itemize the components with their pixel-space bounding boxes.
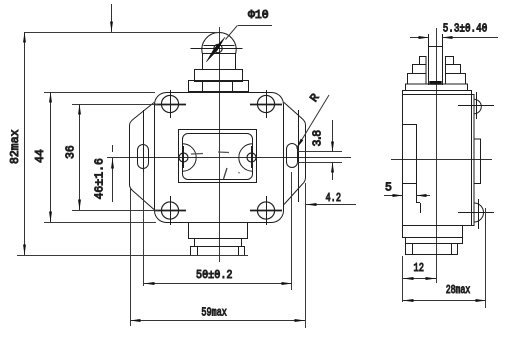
leader R [297,95,330,149]
window inner rect [183,134,253,180]
center line horizontal (front view) [107,157,351,159]
right ear inner line [298,110,300,202]
svg-text:44: 44 [34,149,47,163]
side collar B [403,91,472,95]
left ear wing [130,103,155,210]
dimension 46±1.6 top arrow [111,4,113,32]
dimension 3.8 [297,151,342,153]
dimension 28max [485,208,487,308]
plunger dome (front view) [202,32,236,53]
bottom step 3 (front) [191,247,245,256]
body outline (front view) [155,93,284,223]
roller pin circle [214,44,222,52]
svg-text:12: 12 [414,262,425,275]
svg-text:4.2: 4.2 [326,192,342,205]
side plunger blocks level1 [420,57,427,65]
step C inner left line [202,81,204,92]
svg-text:5: 5 [385,181,392,194]
center line vertical (front view) [219,27,221,262]
left ear inner line [143,110,145,202]
bottom step 1 (front) [189,223,248,239]
side body [403,95,475,226]
bottom step 2 (front) [195,239,242,247]
svg-text:Φ10: Φ10 [248,9,269,22]
window left arc [183,144,197,171]
side bottom step1 [403,226,463,238]
window left pivot circle [179,153,188,162]
dimension 36 [72,104,158,106]
center line vertical (side view) [436,28,438,283]
svg-text:50±0.2: 50±0.2 [196,269,233,282]
dimension 12 [402,256,404,302]
right ear wing [284,103,306,205]
svg-text:28max: 28max [446,284,471,297]
svg-text:R: R [308,92,323,105]
svg-text:46±1.6: 46±1.6 [94,158,107,200]
left ear slot [138,145,149,169]
svg-text:82max: 82max [9,129,22,164]
side body inner right edge [471,95,473,225]
screw hole top-right [257,95,274,112]
leader Φ10 [238,25,272,27]
side plunger blocks level3 [408,74,427,85]
side bump bottom [474,203,484,222]
svg-text:59max: 59max [201,307,227,320]
svg-text:3.8: 3.8 [312,130,325,147]
screw hole bottom-right [257,202,274,219]
dimension 59max [130,188,132,326]
dimension 82max [24,32,219,34]
dimension 50±0.2 [143,172,145,286]
plunger neck [203,54,236,70]
step C inner right line [232,81,234,92]
window outer rect [179,130,257,183]
side bump top [474,99,481,114]
dimension 46±1.6 [112,158,114,202]
side plunger shaft [428,34,430,85]
plunger step B [195,70,243,82]
dimension 5 [384,195,403,197]
dome chord line [204,45,235,47]
plunger step C [189,81,249,92]
window right arc [239,144,253,171]
dimension 4.2 [306,204,356,206]
side bottom step2 [406,238,463,244]
dimension 5.3±0.40 [410,37,429,39]
side collar A [406,84,468,91]
side rib right [474,139,481,184]
dimension 44 [44,92,155,94]
screw hole bottom-left [161,202,178,219]
window right pivot circle [247,153,256,162]
window smudge marks [191,153,203,156]
center line horizontal (side view) [391,159,492,161]
side left inset [403,124,416,126]
dome base line [191,48,243,50]
svg-text:36: 36 [65,145,78,159]
screw hole top-left [161,95,178,112]
svg-text:5.3±0.40: 5.3±0.40 [443,23,488,36]
side bottom step3 [406,244,458,255]
right ear slot [287,144,298,168]
side plunger blocks level2 [413,65,427,74]
